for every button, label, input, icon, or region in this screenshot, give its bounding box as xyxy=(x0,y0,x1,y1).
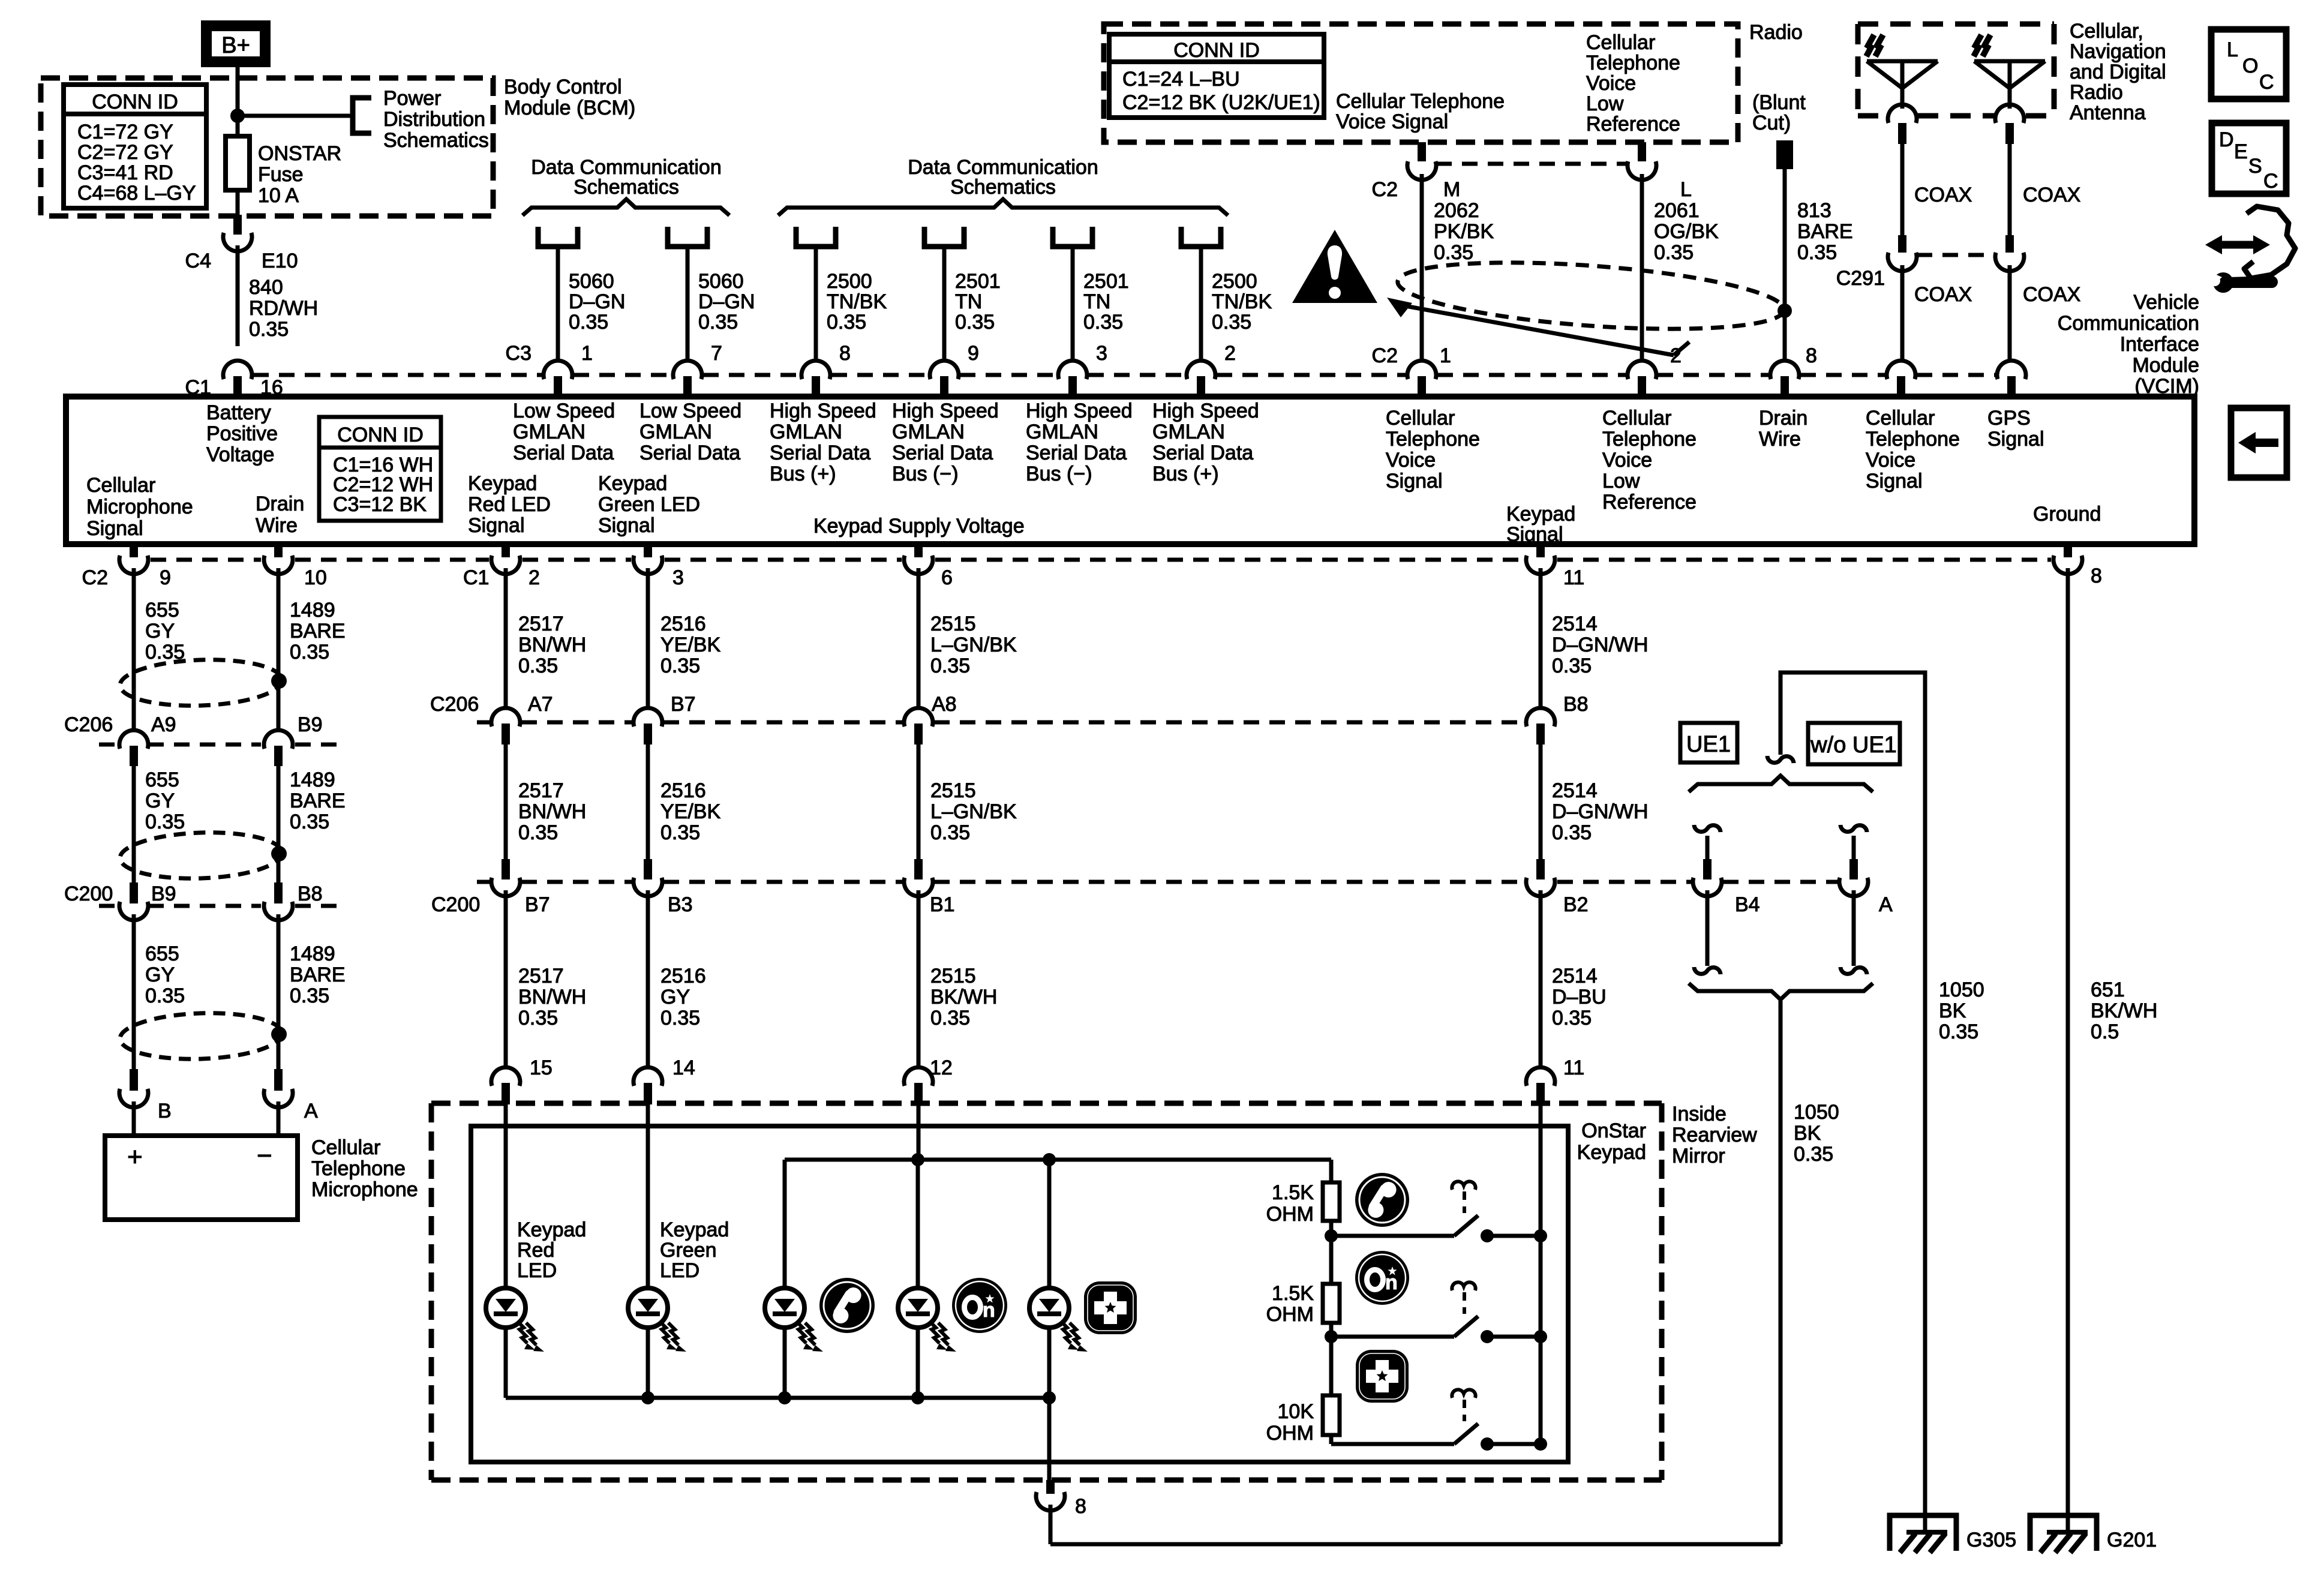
svg-text:GY: GY xyxy=(145,789,175,812)
svg-text:Cellular: Cellular xyxy=(1866,407,1935,430)
svg-text:0.35: 0.35 xyxy=(1552,655,1592,677)
svg-text:3: 3 xyxy=(1096,342,1107,365)
svg-text:Wire: Wire xyxy=(1759,428,1801,451)
svg-text:C206: C206 xyxy=(64,713,113,736)
svg-text:B: B xyxy=(158,1100,172,1122)
svg-text:0.35: 0.35 xyxy=(660,821,700,844)
svg-text:C2=72 GY: C2=72 GY xyxy=(77,141,173,164)
svg-text:Keypad: Keypad xyxy=(517,1218,586,1241)
svg-text:OHM: OHM xyxy=(1266,1303,1314,1326)
svg-text:14: 14 xyxy=(672,1056,695,1079)
svg-text:C3: C3 xyxy=(506,342,532,365)
svg-text:B8: B8 xyxy=(1563,693,1589,716)
svg-text:C4: C4 xyxy=(185,250,211,272)
svg-text:TN: TN xyxy=(955,290,982,313)
svg-text:C2: C2 xyxy=(1372,344,1398,367)
svg-text:BARE: BARE xyxy=(1797,220,1853,243)
svg-text:CONN ID: CONN ID xyxy=(1173,39,1260,62)
svg-text:Bus (+): Bus (+) xyxy=(1152,463,1219,485)
svg-text:0.35: 0.35 xyxy=(569,311,608,334)
svg-text:C1: C1 xyxy=(463,566,489,589)
svg-text:2517: 2517 xyxy=(518,965,564,987)
svg-text:0.35: 0.35 xyxy=(1552,821,1592,844)
svg-text:0.35: 0.35 xyxy=(1654,241,1694,264)
svg-text:Bus (−): Bus (−) xyxy=(892,463,959,485)
svg-text:OHM: OHM xyxy=(1266,1422,1314,1445)
svg-text:1489: 1489 xyxy=(290,599,335,622)
svg-text:Telephone: Telephone xyxy=(1602,428,1697,451)
svg-text:TN/BK: TN/BK xyxy=(827,290,887,313)
svg-text:1.5K: 1.5K xyxy=(1272,1282,1314,1305)
svg-text:655: 655 xyxy=(145,942,179,965)
svg-text:PK/BK: PK/BK xyxy=(1434,220,1494,243)
svg-text:11: 11 xyxy=(1563,1056,1584,1079)
svg-text:GPS: GPS xyxy=(1987,407,2031,430)
svg-text:Telephone: Telephone xyxy=(1386,428,1480,451)
svg-text:B7: B7 xyxy=(671,693,696,716)
svg-text:BN/WH: BN/WH xyxy=(518,800,586,823)
svg-text:Power: Power xyxy=(383,87,441,110)
svg-text:2514: 2514 xyxy=(1552,779,1598,802)
svg-text:0.35: 0.35 xyxy=(518,821,558,844)
svg-text:5060: 5060 xyxy=(569,270,614,293)
svg-text:Keypad: Keypad xyxy=(1577,1141,1646,1164)
svg-text:9: 9 xyxy=(160,566,171,589)
svg-text:BARE: BARE xyxy=(290,620,346,643)
svg-text:(VCIM): (VCIM) xyxy=(2134,375,2199,398)
svg-text:B7: B7 xyxy=(525,893,550,916)
svg-text:C: C xyxy=(2259,71,2274,94)
svg-text:YE/BK: YE/BK xyxy=(660,800,720,823)
svg-text:BN/WH: BN/WH xyxy=(518,986,586,1008)
svg-text:E10: E10 xyxy=(262,250,298,272)
svg-text:Cut): Cut) xyxy=(1752,112,1791,134)
svg-text:GMLAN: GMLAN xyxy=(639,421,712,443)
svg-text:Cellular Telephone: Cellular Telephone xyxy=(1336,90,1505,113)
svg-text:0.35: 0.35 xyxy=(930,821,970,844)
svg-text:C2: C2 xyxy=(1372,178,1398,201)
svg-text:0.35: 0.35 xyxy=(145,984,185,1007)
svg-text:0.35: 0.35 xyxy=(290,810,329,833)
svg-text:Serial Data: Serial Data xyxy=(892,442,993,464)
svg-text:BARE: BARE xyxy=(290,789,346,812)
svg-text:CONN ID: CONN ID xyxy=(337,424,424,446)
svg-text:Voice: Voice xyxy=(1586,72,1636,95)
svg-text:10K: 10K xyxy=(1278,1400,1314,1423)
svg-text:655: 655 xyxy=(145,599,179,622)
svg-text:2: 2 xyxy=(529,566,540,589)
svg-text:Battery: Battery xyxy=(206,401,271,424)
svg-text:Green LED: Green LED xyxy=(598,493,700,516)
svg-text:Cellular: Cellular xyxy=(86,474,155,497)
svg-text:1050: 1050 xyxy=(1794,1101,1839,1124)
svg-text:2501: 2501 xyxy=(955,270,1001,293)
svg-text:High Speed: High Speed xyxy=(1152,400,1259,422)
svg-text:0.35: 0.35 xyxy=(1434,241,1473,264)
svg-text:Antenna: Antenna xyxy=(2070,101,2146,124)
svg-text:2514: 2514 xyxy=(1552,965,1598,987)
svg-text:2500: 2500 xyxy=(827,270,872,293)
svg-text:Positive: Positive xyxy=(206,422,278,445)
svg-text:B9: B9 xyxy=(298,713,323,736)
svg-text:8: 8 xyxy=(839,342,851,365)
svg-text:and Digital: and Digital xyxy=(2070,61,2166,83)
svg-text:E: E xyxy=(2234,140,2248,163)
svg-text:2516: 2516 xyxy=(660,965,706,987)
svg-text:10: 10 xyxy=(304,566,327,589)
svg-text:8: 8 xyxy=(2091,565,2102,587)
svg-text:−: − xyxy=(257,1141,272,1170)
svg-text:Reference: Reference xyxy=(1602,491,1697,514)
svg-text:Schematics: Schematics xyxy=(383,129,489,152)
svg-text:0.35: 0.35 xyxy=(930,1007,970,1029)
svg-text:Vehicle: Vehicle xyxy=(2133,291,2199,314)
svg-text:C2: C2 xyxy=(82,566,108,589)
svg-text:0.35: 0.35 xyxy=(1939,1020,1978,1043)
svg-text:2515: 2515 xyxy=(930,779,976,802)
svg-text:2061: 2061 xyxy=(1654,199,1700,222)
svg-text:GY: GY xyxy=(660,986,690,1008)
svg-text:C3=12 BK: C3=12 BK xyxy=(333,493,427,516)
svg-text:2501: 2501 xyxy=(1083,270,1129,293)
svg-text:1: 1 xyxy=(1440,344,1451,367)
svg-text:Telephone: Telephone xyxy=(311,1157,406,1180)
svg-text:Serial Data: Serial Data xyxy=(1026,442,1127,464)
svg-text:2516: 2516 xyxy=(660,613,706,635)
svg-text:(Blunt: (Blunt xyxy=(1752,91,1806,114)
svg-text:Interface: Interface xyxy=(2120,333,2199,356)
svg-text:B4: B4 xyxy=(1735,893,1760,916)
svg-text:G305: G305 xyxy=(1966,1529,2016,1551)
svg-text:GY: GY xyxy=(145,963,175,986)
svg-text:Low: Low xyxy=(1586,92,1624,115)
svg-text:Signal: Signal xyxy=(468,514,525,537)
svg-text:Reference: Reference xyxy=(1586,113,1680,136)
svg-text:Voice: Voice xyxy=(1602,449,1652,472)
svg-text:6: 6 xyxy=(941,566,953,589)
svg-text:Bus (+): Bus (+) xyxy=(770,463,836,485)
svg-text:OnStar: OnStar xyxy=(1581,1119,1646,1142)
svg-text:A9: A9 xyxy=(151,713,176,736)
svg-text:YE/BK: YE/BK xyxy=(660,634,720,656)
svg-text:Keypad: Keypad xyxy=(660,1218,729,1241)
svg-text:Bus (−): Bus (−) xyxy=(1026,463,1092,485)
svg-text:Telephone: Telephone xyxy=(1586,52,1680,74)
svg-text:Microphone: Microphone xyxy=(86,496,193,518)
svg-text:GMLAN: GMLAN xyxy=(1026,421,1098,443)
svg-text:0.35: 0.35 xyxy=(660,655,700,677)
svg-text:TN/BK: TN/BK xyxy=(1212,290,1272,313)
svg-text:0.35: 0.35 xyxy=(698,311,738,334)
svg-text:2062: 2062 xyxy=(1434,199,1479,222)
svg-text:Low Speed: Low Speed xyxy=(513,400,615,422)
svg-text:BK: BK xyxy=(1939,999,1966,1022)
svg-text:C291: C291 xyxy=(1836,267,1885,290)
svg-text:C1=72 GY: C1=72 GY xyxy=(77,121,173,143)
svg-text:0.35: 0.35 xyxy=(249,318,289,341)
svg-text:ONSTAR: ONSTAR xyxy=(258,142,341,165)
svg-text:3: 3 xyxy=(672,566,684,589)
svg-text:L–GN/BK: L–GN/BK xyxy=(930,800,1017,823)
svg-text:GY: GY xyxy=(145,620,175,643)
svg-text:Red: Red xyxy=(517,1239,554,1262)
svg-text:Radio: Radio xyxy=(2070,81,2123,104)
svg-text:0.5: 0.5 xyxy=(2091,1020,2119,1043)
svg-text:Serial Data: Serial Data xyxy=(639,442,740,464)
svg-text:D–GN/WH: D–GN/WH xyxy=(1552,800,1649,823)
svg-text:M: M xyxy=(1443,178,1460,201)
svg-text:OG/BK: OG/BK xyxy=(1654,220,1719,243)
svg-text:2515: 2515 xyxy=(930,613,976,635)
svg-text:0.35: 0.35 xyxy=(518,1007,558,1029)
svg-text:1489: 1489 xyxy=(290,769,335,791)
svg-text:Red LED: Red LED xyxy=(468,493,551,516)
svg-text:Low: Low xyxy=(1602,470,1640,493)
svg-text:C200: C200 xyxy=(431,893,480,916)
svg-text:n: n xyxy=(983,1299,995,1322)
svg-text:12: 12 xyxy=(930,1056,953,1079)
svg-text:COAX: COAX xyxy=(2023,283,2080,306)
svg-text:Mirror: Mirror xyxy=(1672,1145,1725,1167)
svg-text:Wire: Wire xyxy=(256,514,298,537)
svg-text:Serial Data: Serial Data xyxy=(770,442,870,464)
svg-text:B2: B2 xyxy=(1563,893,1589,916)
svg-text:0.35: 0.35 xyxy=(660,1007,700,1029)
svg-text:2515: 2515 xyxy=(930,965,976,987)
svg-text:OHM: OHM xyxy=(1266,1203,1314,1226)
svg-text:Signal: Signal xyxy=(1506,523,1563,546)
svg-text:UE1: UE1 xyxy=(1686,732,1731,757)
svg-text:2517: 2517 xyxy=(518,779,564,802)
svg-text:Navigation: Navigation xyxy=(2070,40,2166,63)
svg-text:Fuse: Fuse xyxy=(258,163,304,186)
svg-text:High Speed: High Speed xyxy=(770,400,876,422)
svg-text:Drain: Drain xyxy=(1759,407,1807,430)
svg-text:2500: 2500 xyxy=(1212,270,1257,293)
svg-text:7: 7 xyxy=(711,342,722,365)
svg-text:0.35: 0.35 xyxy=(145,810,185,833)
svg-text:0.35: 0.35 xyxy=(290,984,329,1007)
svg-text:D–GN: D–GN xyxy=(569,290,625,313)
svg-text:Body Control: Body Control xyxy=(504,76,622,98)
svg-text:Serial Data: Serial Data xyxy=(1152,442,1253,464)
svg-text:1489: 1489 xyxy=(290,942,335,965)
svg-text:A: A xyxy=(1879,893,1893,916)
svg-text:BK: BK xyxy=(1794,1122,1821,1145)
svg-text:C4=68 L–GY: C4=68 L–GY xyxy=(77,182,196,205)
svg-text:9: 9 xyxy=(968,342,979,365)
svg-text:651: 651 xyxy=(2091,978,2125,1001)
svg-text:High Speed: High Speed xyxy=(892,400,999,422)
svg-text:Schematics: Schematics xyxy=(574,176,679,199)
svg-text:O: O xyxy=(2242,55,2258,77)
svg-text:w/o UE1: w/o UE1 xyxy=(1810,733,1897,758)
svg-text:2: 2 xyxy=(1224,342,1236,365)
svg-text:0.35: 0.35 xyxy=(827,311,866,334)
svg-text:2516: 2516 xyxy=(660,779,706,802)
svg-text:0.35: 0.35 xyxy=(930,655,970,677)
svg-text:B1: B1 xyxy=(930,893,955,916)
svg-text:Cellular: Cellular xyxy=(1602,407,1671,430)
svg-text:Inside: Inside xyxy=(1672,1103,1727,1125)
svg-text:BN/WH: BN/WH xyxy=(518,634,586,656)
svg-text:0.35: 0.35 xyxy=(290,641,329,664)
svg-text:Low Speed: Low Speed xyxy=(639,400,741,422)
svg-text:0.35: 0.35 xyxy=(1212,311,1251,334)
svg-text:A: A xyxy=(304,1100,318,1122)
svg-text:GMLAN: GMLAN xyxy=(770,421,842,443)
svg-text:10 A: 10 A xyxy=(258,184,299,207)
svg-text:2517: 2517 xyxy=(518,613,564,635)
svg-text:L–GN/BK: L–GN/BK xyxy=(930,634,1017,656)
svg-text:Radio: Radio xyxy=(1749,21,1803,44)
svg-text:GMLAN: GMLAN xyxy=(892,421,965,443)
svg-text:0.35: 0.35 xyxy=(955,311,995,334)
svg-text:C: C xyxy=(2263,170,2278,193)
svg-text:COAX: COAX xyxy=(1914,184,1972,206)
svg-text:0.35: 0.35 xyxy=(1083,311,1123,334)
svg-text:GMLAN: GMLAN xyxy=(1152,421,1225,443)
svg-text:Keypad Supply Voltage: Keypad Supply Voltage xyxy=(813,515,1025,538)
svg-text:Cellular,: Cellular, xyxy=(2070,20,2143,43)
svg-text:Serial Data: Serial Data xyxy=(513,442,614,464)
svg-text:B+: B+ xyxy=(221,33,250,58)
svg-text:Communication: Communication xyxy=(2058,312,2199,335)
svg-text:8: 8 xyxy=(1075,1495,1086,1518)
svg-text:Distribution: Distribution xyxy=(383,108,485,131)
svg-text:0.35: 0.35 xyxy=(1552,1007,1592,1029)
svg-text:D–BU: D–BU xyxy=(1552,986,1607,1008)
svg-text:Ground: Ground xyxy=(2033,503,2101,526)
svg-text:Signal: Signal xyxy=(1866,470,1923,493)
svg-text:Voice: Voice xyxy=(1866,449,1915,472)
svg-text:+: + xyxy=(127,1142,143,1172)
svg-text:Module: Module xyxy=(2132,354,2199,377)
svg-text:C2=12 BK (U2K/UE1): C2=12 BK (U2K/UE1) xyxy=(1122,91,1320,114)
svg-text:Signal: Signal xyxy=(86,517,143,540)
svg-text:0.35: 0.35 xyxy=(1797,241,1837,264)
svg-text:L: L xyxy=(1680,178,1692,201)
svg-text:5060: 5060 xyxy=(698,270,744,293)
svg-text:8: 8 xyxy=(1806,344,1817,367)
svg-text:813: 813 xyxy=(1797,199,1831,222)
svg-text:Cellular: Cellular xyxy=(311,1136,380,1159)
svg-text:LED: LED xyxy=(517,1259,557,1282)
svg-text:Module (BCM): Module (BCM) xyxy=(504,97,635,119)
svg-text:655: 655 xyxy=(145,769,179,791)
svg-text:S: S xyxy=(2248,155,2262,178)
svg-text:A8: A8 xyxy=(932,693,957,716)
svg-text:D–GN/WH: D–GN/WH xyxy=(1552,634,1649,656)
svg-text:Cellular: Cellular xyxy=(1386,407,1455,430)
svg-text:Keypad: Keypad xyxy=(598,472,667,495)
svg-text:Voice: Voice xyxy=(1386,449,1436,472)
svg-text:Signal: Signal xyxy=(1386,470,1443,493)
svg-text:Signal: Signal xyxy=(598,514,655,537)
svg-text:1.5K: 1.5K xyxy=(1272,1181,1314,1204)
svg-text:Microphone: Microphone xyxy=(311,1178,418,1201)
svg-text:840: 840 xyxy=(249,276,283,299)
svg-text:Signal: Signal xyxy=(1987,428,2044,451)
svg-text:RD/WH: RD/WH xyxy=(249,297,318,320)
svg-text:D–GN: D–GN xyxy=(698,290,755,313)
svg-text:A7: A7 xyxy=(528,693,553,716)
svg-text:L: L xyxy=(2227,38,2238,61)
svg-text:Schematics: Schematics xyxy=(950,176,1056,199)
svg-text:0.35: 0.35 xyxy=(518,655,558,677)
svg-text:COAX: COAX xyxy=(1914,283,1972,306)
svg-text:BK/WH: BK/WH xyxy=(930,986,997,1008)
svg-text:Keypad: Keypad xyxy=(468,472,537,495)
svg-text:1050: 1050 xyxy=(1939,978,1984,1001)
svg-text:TN: TN xyxy=(1083,290,1110,313)
svg-text:Rearview: Rearview xyxy=(1672,1124,1757,1146)
svg-text:High Speed: High Speed xyxy=(1026,400,1133,422)
svg-text:C200: C200 xyxy=(64,882,113,905)
svg-text:Keypad: Keypad xyxy=(1506,503,1575,526)
svg-text:BK/WH: BK/WH xyxy=(2091,999,2157,1022)
svg-text:Green: Green xyxy=(660,1239,717,1262)
svg-text:C1=24 L–BU: C1=24 L–BU xyxy=(1122,68,1240,91)
svg-text:0.35: 0.35 xyxy=(1794,1143,1833,1166)
svg-text:1: 1 xyxy=(581,342,593,365)
svg-text:Drain: Drain xyxy=(256,493,304,515)
svg-text:Voice Signal: Voice Signal xyxy=(1336,110,1448,133)
svg-text:CONN ID: CONN ID xyxy=(92,91,178,113)
svg-text:Voltage: Voltage xyxy=(206,443,274,466)
svg-text:G201: G201 xyxy=(2107,1529,2157,1551)
svg-text:Cellular: Cellular xyxy=(1586,31,1655,54)
svg-text:Telephone: Telephone xyxy=(1866,428,1960,451)
svg-text:D: D xyxy=(2219,128,2234,151)
svg-text:LED: LED xyxy=(660,1259,699,1282)
svg-text:BARE: BARE xyxy=(290,963,346,986)
svg-text:GMLAN: GMLAN xyxy=(513,421,585,443)
svg-text:B3: B3 xyxy=(668,893,693,916)
svg-text:C3=41 RD: C3=41 RD xyxy=(77,161,173,184)
svg-text:COAX: COAX xyxy=(2023,184,2080,206)
svg-text:15: 15 xyxy=(530,1056,553,1079)
svg-text:B9: B9 xyxy=(151,882,176,905)
svg-text:11: 11 xyxy=(1563,566,1584,589)
svg-text:B8: B8 xyxy=(298,882,323,905)
svg-text:2514: 2514 xyxy=(1552,613,1598,635)
svg-text:n: n xyxy=(1385,1271,1398,1294)
svg-text:C206: C206 xyxy=(430,693,479,716)
